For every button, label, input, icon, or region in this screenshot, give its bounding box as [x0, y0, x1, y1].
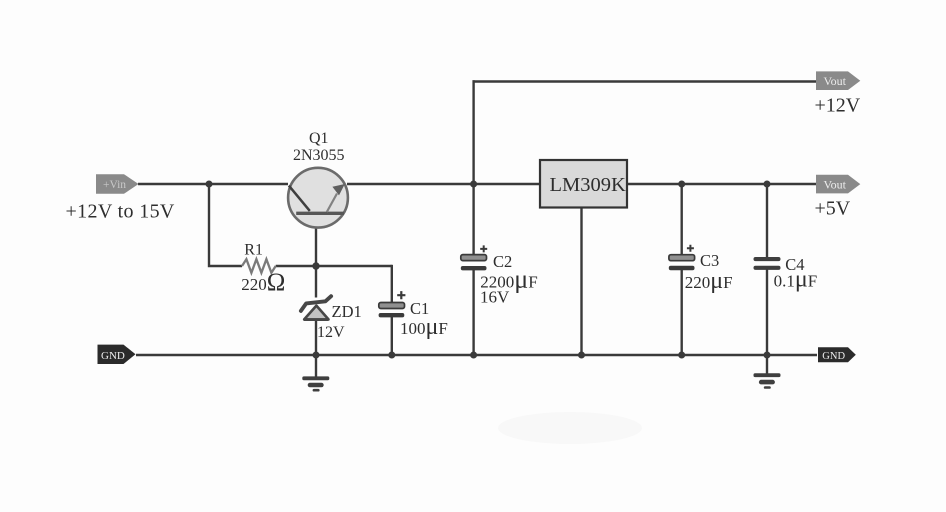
svg-text:GND: GND: [822, 351, 845, 362]
svg-text:Q1: Q1: [309, 130, 329, 147]
svg-text:Vout: Vout: [824, 74, 847, 88]
node: base node R1/zener: [312, 262, 319, 269]
svg-text:+12V: +12V: [815, 94, 861, 116]
svg-text:16V: 16V: [480, 287, 510, 306]
capacitor C4: [754, 257, 781, 270]
wire: LM309K output to Vout +5V tag: [627, 183, 818, 185]
wire: LM309K ground pin: [580, 207, 582, 355]
capacitor C2: [461, 245, 487, 270]
node: riser junction on input rail: [470, 181, 477, 188]
svg-text:C3: C3: [700, 251, 719, 270]
wire: C3 riser from output rail: [681, 184, 683, 255]
wire: C1 bottom plate to ground rail: [391, 317, 393, 356]
svg-text:ZD1: ZD1: [332, 302, 362, 321]
port tag Vout +12V: [816, 71, 860, 90]
port tag GND right: [818, 347, 856, 362]
svg-text:R1: R1: [244, 242, 263, 259]
capacitor C3: [669, 245, 695, 270]
svg-text:Vout: Vout: [824, 177, 847, 191]
wire: top +12V rail y=81: [473, 80, 819, 82]
port tag Vout +5V: [816, 175, 860, 194]
svg-text:+Vin: +Vin: [103, 179, 126, 191]
svg-text:12V: 12V: [317, 324, 345, 341]
wire: C1 drop from y=266 to top plate: [391, 265, 393, 303]
transistor Q1 2N3055: [288, 168, 348, 228]
node: C4 junction on output rail: [764, 181, 771, 188]
node: input junction at Vin rail: [206, 181, 213, 188]
svg-text:GND: GND: [101, 350, 125, 362]
svg-text:+5V: +5V: [815, 198, 851, 220]
capacitor C1: [379, 291, 406, 317]
svg-text:C2: C2: [493, 252, 512, 271]
wire: C3 bottom to ground rail: [681, 270, 683, 355]
wire: C2 bottom to ground rail: [472, 270, 474, 356]
ground symbol under C4 node: [754, 355, 781, 389]
node: zener ground junction: [313, 352, 320, 359]
port tag GND left: [98, 345, 136, 364]
watermark smudge: [498, 412, 642, 444]
node: C3 junction on output rail: [678, 181, 685, 188]
wire: drop from input junction to R1: [209, 184, 242, 266]
node: C3 ground junction: [678, 352, 685, 359]
wire: C4 riser from output rail: [766, 184, 768, 258]
wire: ground rail y=355: [136, 354, 817, 356]
wire: zener anode to ground rail: [315, 320, 317, 356]
node: C2 ground junction: [470, 352, 477, 359]
svg-text:2N3055: 2N3055: [293, 147, 345, 164]
node: C1 ground junction: [388, 352, 395, 359]
wire: Q1 emitter down through node to zener: [315, 214, 317, 298]
zener diode ZD1: [301, 296, 331, 319]
port tag +Vin: [96, 174, 139, 194]
svg-text:LM309K: LM309K: [550, 174, 627, 196]
svg-text:+12V to 15V: +12V to 15V: [66, 200, 175, 222]
node: LM309K ground junction: [578, 352, 585, 359]
wire: main input rail y=184 from +Vin to Q1: [138, 183, 288, 185]
regulator U1 LM309K: [540, 160, 627, 208]
wire: vertical riser x=473.6 from top rail through input rail to C2: [472, 80, 474, 255]
wire: R1 right side to node, then to C1 drop: [276, 265, 392, 267]
ground symbol under zener node: [302, 355, 329, 392]
wire: Q1 collector to LM309K input: [347, 183, 540, 185]
wire: C4 bottom to ground rail: [766, 270, 768, 356]
resistor R1: [242, 259, 276, 273]
node: C4 ground junction: [764, 352, 771, 359]
